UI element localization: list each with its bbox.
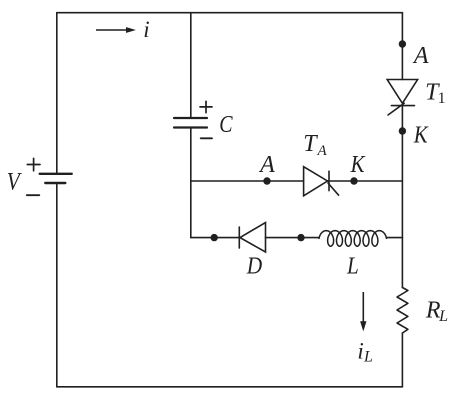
svg-text:L: L [438,308,448,325]
svg-text:K: K [413,121,429,148]
svg-text:T: T [303,131,318,157]
svg-text:A: A [412,43,429,69]
svg-text:A: A [317,143,328,159]
svg-text:A: A [258,152,275,178]
svg-text:C: C [219,110,233,137]
svg-text:i: i [357,339,363,364]
svg-text:K: K [350,151,366,178]
svg-text:L: L [346,252,359,279]
svg-text:i: i [143,17,149,42]
svg-text:L: L [363,349,373,366]
svg-text:1: 1 [438,90,446,107]
svg-text:V: V [7,168,23,196]
svg-text:D: D [246,252,263,278]
